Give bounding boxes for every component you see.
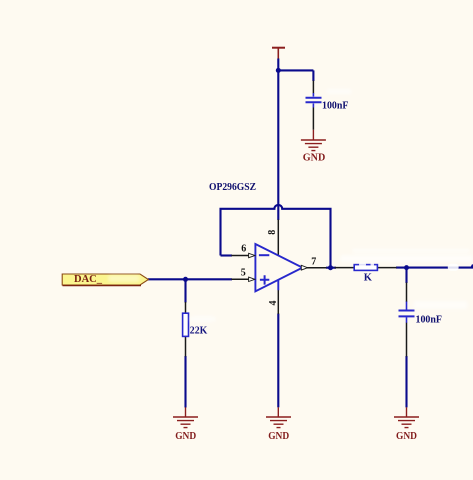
svg-text:GND: GND [175, 431, 196, 442]
svg-text:100nF: 100nF [322, 100, 349, 111]
svg-text:22K: 22K [190, 326, 208, 337]
svg-text:7: 7 [311, 257, 316, 268]
svg-text:OP296GSZ: OP296GSZ [209, 182, 256, 193]
svg-text:8: 8 [267, 230, 278, 235]
svg-text:GND: GND [268, 431, 289, 442]
svg-text:100nF: 100nF [416, 314, 443, 325]
svg-text:GND: GND [396, 431, 417, 442]
svg-text:6: 6 [241, 244, 246, 255]
svg-text:DAC_: DAC_ [74, 274, 103, 285]
svg-text:K: K [364, 273, 373, 284]
svg-text:5: 5 [241, 268, 246, 279]
svg-text:GND: GND [303, 152, 326, 163]
svg-text:4: 4 [268, 301, 279, 306]
